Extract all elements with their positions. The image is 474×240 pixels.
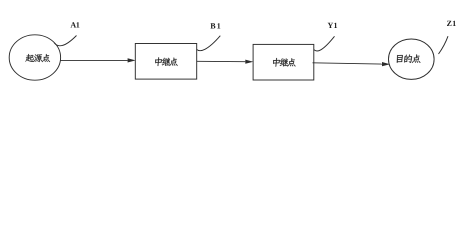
leader line Y1 [314, 36, 335, 51]
label text 中继点 (relay point) box 1 [155, 57, 179, 66]
wire arrow: relay 1 -> relay 2 [197, 60, 253, 64]
node label Y1 [328, 23, 337, 28]
relay node 1 box (中继点) [135, 44, 196, 80]
label text 中继点 (relay point) box 2 [273, 58, 297, 67]
leader line Z1 [439, 36, 449, 54]
wire arrow: origin -> relay 1 [60, 58, 135, 62]
wire arrow: relay 2 -> destination [313, 62, 391, 66]
relay node 2 box (中继点) [253, 44, 314, 80]
leader line B1 [197, 36, 221, 51]
label text 起源点 (origin point) [25, 54, 50, 62]
node label Z1 [447, 21, 456, 26]
origin node circle (起源点) [9, 35, 60, 80]
destination node circle (目的点) [389, 39, 435, 79]
label text 目的点 (destination point) [396, 54, 421, 62]
node label A1 [70, 22, 79, 27]
node label B1 [210, 23, 220, 28]
leader line A1 [54, 36, 77, 46]
